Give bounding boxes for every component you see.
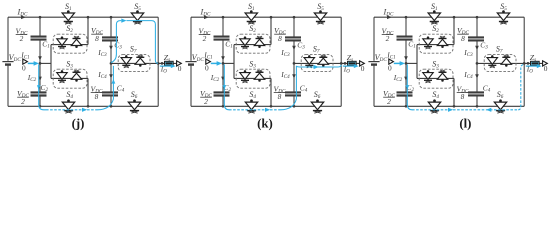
svg-text:8: 8 xyxy=(461,34,465,43)
switch S6 gate marks xyxy=(314,111,320,113)
wire left rail upper xyxy=(373,17,375,61)
switch S4 gate marks xyxy=(248,111,254,113)
svg-text:2: 2 xyxy=(203,34,207,43)
switch S4 diode triangle xyxy=(62,102,74,110)
wire S7 branch xyxy=(294,62,341,64)
switch S3 right device dot xyxy=(258,79,261,82)
switch S7 left device gate marks xyxy=(124,66,129,68)
junction S3 bottom xyxy=(270,105,273,108)
switch S4 body dot xyxy=(250,99,253,102)
switch S6 body dot xyxy=(499,99,502,102)
wire C4 rail bottom segment xyxy=(110,95,112,106)
capacitor C4 xyxy=(285,92,301,95)
cyan dashed path along bottom to right corner xyxy=(412,109,518,111)
switch S7 right device triangle xyxy=(135,58,145,64)
wire S2 branch xyxy=(51,44,88,46)
circuit (j) xyxy=(2,2,181,113)
svg-text:2: 2 xyxy=(20,34,24,43)
battery VDC negative plate xyxy=(188,63,194,65)
current arrow IC4 xyxy=(109,74,113,79)
wire rail A top segment xyxy=(222,17,224,36)
load Zs box xyxy=(348,61,357,65)
junction rail A top xyxy=(222,16,225,19)
switch S5 cathode bar xyxy=(133,21,142,23)
wire bottom rail xyxy=(8,105,158,107)
switch S5 gate marks xyxy=(500,22,506,24)
switch S7 left device triangle xyxy=(121,58,131,65)
switch S3 left device triangle xyxy=(57,73,67,80)
switch S5 diode triangle xyxy=(497,13,509,21)
wire right rail xyxy=(340,17,342,106)
switch S6 cathode bar xyxy=(496,110,505,112)
current arrow IDC xyxy=(387,15,392,19)
wire top rail xyxy=(374,16,524,18)
switch S3 left device dot xyxy=(244,70,247,73)
node 0 stub wire xyxy=(406,62,417,64)
junction output xyxy=(157,62,160,65)
wire left rail lower xyxy=(373,66,375,107)
switch S2 left device triangle xyxy=(240,39,250,46)
svg-text:8: 8 xyxy=(461,92,465,101)
node 0 terminal triangle xyxy=(389,59,394,64)
switch S2 left device bar xyxy=(241,46,249,48)
junction S7 left xyxy=(110,62,113,65)
cyan path through C2 xyxy=(39,64,46,109)
switch S1 gate marks xyxy=(65,22,71,24)
switch S5 cathode bar xyxy=(316,21,325,23)
switch cell S7 dashed box xyxy=(484,55,516,72)
switch S2 left device bar xyxy=(58,46,66,48)
wire C3 rail middle segment xyxy=(293,40,295,92)
wire left rail upper xyxy=(7,17,9,61)
switch S3 left device dot xyxy=(61,70,64,73)
switch S3 left device triangle xyxy=(240,73,250,80)
switch S7 right device dot xyxy=(322,64,325,67)
switch S3 left device gate marks xyxy=(59,81,64,83)
switch cell S7 dashed box xyxy=(301,55,333,72)
switch S6 gate marks xyxy=(131,111,137,113)
switch S3 right device bar xyxy=(256,71,264,73)
switch cell S2 dashed box xyxy=(53,34,87,53)
switch S2 left device dot xyxy=(244,36,247,39)
current arrow IC2 xyxy=(404,77,408,82)
wire rail A middle segment xyxy=(222,40,224,93)
cyan path through S7 to output xyxy=(296,65,341,67)
current arrow IC1 xyxy=(221,56,225,61)
switch S4 cathode bar xyxy=(430,110,439,112)
switch S3 right device dot xyxy=(75,79,78,82)
wire top rail xyxy=(8,16,158,18)
node 0 stub wire xyxy=(40,62,51,64)
wire output to Zs xyxy=(341,62,360,64)
cyan path up through C4 xyxy=(281,66,297,110)
cyan output current IO arrow xyxy=(343,65,354,67)
junction rail A bottom xyxy=(405,105,408,108)
switch cell S3 dashed box xyxy=(236,69,270,88)
switch S7 left device bar xyxy=(122,64,130,66)
switch S2 right device bar xyxy=(73,38,81,40)
junction S2 top xyxy=(87,16,90,19)
battery VDC positive plate xyxy=(368,61,379,63)
svg-text:0: 0 xyxy=(388,63,392,72)
switch S7 left device bar xyxy=(488,64,496,66)
wire right rail xyxy=(523,17,525,106)
switch S1 diode triangle xyxy=(62,13,74,21)
switch S7 left device triangle xyxy=(487,58,497,65)
junction Zs node xyxy=(527,62,530,65)
switch S3 right device triangle xyxy=(71,73,81,79)
switch S6 body dot xyxy=(133,99,136,102)
capacitor C1 xyxy=(397,37,413,40)
switch S3 right device gate marks xyxy=(74,70,79,72)
battery VDC negative plate xyxy=(371,63,377,65)
switch S3 right device gate marks xyxy=(257,70,262,72)
capacitor C2 xyxy=(397,92,413,95)
cyan path through C2 xyxy=(224,64,229,109)
wire C3 rail top segment xyxy=(110,17,112,37)
svg-text:(l): (l) xyxy=(459,116,471,130)
junction S2 top xyxy=(270,16,273,19)
switch cell S7 dashed box xyxy=(118,55,150,72)
switch S5 gate marks xyxy=(134,22,140,24)
current arrow IC3 xyxy=(475,46,479,51)
wire C4 rail bottom segment xyxy=(476,95,478,106)
junction rail A bottom xyxy=(222,105,225,108)
load Zs box xyxy=(531,61,540,65)
switch S2 left device triangle xyxy=(423,39,433,46)
switch S3 left device bar xyxy=(424,79,432,81)
svg-text:8: 8 xyxy=(278,92,282,101)
cyan path under S5 to output xyxy=(127,21,159,64)
capacitor C3 xyxy=(468,37,484,40)
svg-text:0: 0 xyxy=(22,63,26,72)
wire C4 rail bottom segment xyxy=(293,95,295,106)
junction S7 left xyxy=(476,62,479,65)
junction output xyxy=(523,62,526,65)
capacitor C1 xyxy=(31,37,47,40)
switch S6 cathode bar xyxy=(130,110,139,112)
current arrow IDC xyxy=(21,15,26,19)
switch S1 gate marks xyxy=(431,22,437,24)
wire rail A bottom segment xyxy=(39,96,41,107)
switch S3 right device bar xyxy=(439,71,447,73)
cyan path up to S5 and down right rail xyxy=(111,21,121,63)
switch S1 cathode bar xyxy=(430,21,439,23)
switch S2 right device gate marks xyxy=(257,36,262,38)
cyan dashed path along bottom xyxy=(46,109,98,111)
switch S3 left device bar xyxy=(58,79,66,81)
switch S4 cathode bar xyxy=(247,110,256,112)
switch S4 gate marks xyxy=(431,111,437,113)
switch S4 diode triangle xyxy=(245,102,257,110)
wire right rail xyxy=(157,17,159,106)
switch S2 right device bar xyxy=(439,38,447,40)
switch S2 right device triangle xyxy=(437,39,447,45)
switch S5 body dot xyxy=(502,10,505,13)
cyan arrow bottom path xyxy=(82,108,87,112)
circuit (k) xyxy=(185,2,364,113)
switch S7 left device dot xyxy=(125,55,128,58)
wire S2 vertical to top xyxy=(270,17,272,44)
capacitor C4 xyxy=(102,92,118,95)
node 0 stub wire xyxy=(223,62,234,64)
node 0 terminal triangle xyxy=(23,59,28,64)
wire rail A bottom segment xyxy=(405,96,407,107)
switch S7 right device dot xyxy=(505,64,508,67)
switch S7 right device bar xyxy=(319,56,327,58)
switch S5 diode triangle xyxy=(131,13,143,21)
switch S7 left device dot xyxy=(491,55,494,58)
current arrow IC2 xyxy=(221,77,225,82)
current arrow at node 0 (cyan) xyxy=(28,62,34,64)
cyan path through C2 xyxy=(407,64,412,109)
junction node 0 xyxy=(222,62,225,65)
switch S4 gate marks xyxy=(65,111,71,113)
switch S2 right device dot xyxy=(258,45,261,48)
cyan arrow bottom path left xyxy=(486,108,491,112)
junction S3 bottom xyxy=(453,105,456,108)
switch S1 cathode bar xyxy=(64,21,73,23)
switch S7 right device dot xyxy=(139,64,142,67)
switch cell S3 dashed box xyxy=(419,69,453,88)
switch S5 gate marks xyxy=(317,22,323,24)
svg-text:2: 2 xyxy=(387,97,391,106)
cyan arrow down above C2 xyxy=(406,85,410,89)
switch cell S2 dashed box xyxy=(236,34,270,53)
switch S7 right device gate marks xyxy=(138,55,143,57)
cyan dashed path up right rail xyxy=(518,64,523,109)
svg-text:(j): (j) xyxy=(72,116,85,130)
wire S3 branch xyxy=(417,77,454,79)
current arrow IC3 xyxy=(292,46,296,51)
wire bottom rail xyxy=(191,105,341,107)
capacitor C3 xyxy=(102,37,118,40)
wire S2S3 left vertical xyxy=(416,45,418,79)
wire left rail lower xyxy=(7,66,9,107)
cyan arrow up on C4 rail xyxy=(112,79,116,84)
switch S5 cathode bar xyxy=(499,21,508,23)
junction node 0 xyxy=(39,62,42,65)
svg-text:0: 0 xyxy=(361,64,365,73)
switch S2 left device bar xyxy=(424,46,432,48)
switch S3 left device bar xyxy=(241,79,249,81)
current arrow IC2 xyxy=(38,77,42,82)
junction S2 top xyxy=(453,16,456,19)
switch S3 right device dot xyxy=(441,79,444,82)
switch S2 right device bar xyxy=(256,38,264,40)
wire C3 rail middle segment xyxy=(476,40,478,92)
svg-text:0: 0 xyxy=(178,64,182,73)
switch S1 gate marks xyxy=(248,22,254,24)
switch S2 right device gate marks xyxy=(74,36,79,38)
wire rail A middle segment xyxy=(39,40,41,93)
wire output to Zs xyxy=(524,62,543,64)
switch S3 right device triangle xyxy=(254,73,264,79)
svg-text:2: 2 xyxy=(21,97,25,106)
node 0 terminal right xyxy=(360,61,365,66)
switch S7 left device triangle xyxy=(304,58,314,65)
switch S4 body dot xyxy=(433,99,436,102)
current arrow IC4 xyxy=(292,74,296,79)
wire rail A top segment xyxy=(39,17,41,36)
switch S1 cathode bar xyxy=(247,21,256,23)
cyan arrow bottom path right xyxy=(448,108,453,112)
current arrow at node 0 (cyan) xyxy=(211,62,217,64)
switch S4 body dot xyxy=(67,99,70,102)
switch S2 left device triangle xyxy=(57,39,67,46)
switch S3 left device gate marks xyxy=(425,81,430,83)
switch cell S2 dashed box xyxy=(419,34,453,53)
cyan arrow bottom path xyxy=(265,108,270,112)
wire S3 branch xyxy=(234,77,271,79)
capacitor C2 xyxy=(214,92,230,95)
capacitor C3 xyxy=(285,37,301,40)
switch S4 diode triangle xyxy=(428,102,440,110)
wire rail A bottom segment xyxy=(222,96,224,107)
svg-text:(k): (k) xyxy=(257,116,273,130)
junction S7 left xyxy=(293,62,296,65)
switch S7 right device gate marks xyxy=(321,55,326,57)
wire C3 rail top segment xyxy=(476,17,478,37)
switch S3 right device bar xyxy=(73,71,81,73)
switch S1 body dot xyxy=(250,10,253,13)
current arrow IC1 xyxy=(404,56,408,61)
switch S7 right device bar xyxy=(136,56,144,58)
switch S5 diode triangle xyxy=(314,13,326,21)
cyan arrow toward S5 xyxy=(121,19,126,23)
switch S1 body dot xyxy=(67,10,70,13)
switch S2 left device gate marks xyxy=(425,47,430,49)
junction Zs node xyxy=(161,62,164,65)
current arrow IDC xyxy=(204,15,209,19)
wire left rail upper xyxy=(190,17,192,61)
switch S2 right device triangle xyxy=(71,39,81,45)
switch S6 diode triangle xyxy=(494,102,506,110)
junction C4 bottom xyxy=(476,105,479,108)
battery VDC positive plate xyxy=(2,61,13,63)
junction node 0 xyxy=(405,62,408,65)
switch S1 body dot xyxy=(433,10,436,13)
junction C3 top xyxy=(476,16,479,19)
wire S7 branch xyxy=(111,62,158,64)
circuit (l) xyxy=(368,2,547,113)
switch S4 cathode bar xyxy=(64,110,73,112)
current arrow IC3 xyxy=(109,46,113,51)
switch S7 left device bar xyxy=(305,64,313,66)
svg-text:2: 2 xyxy=(204,97,208,106)
junction rail A top xyxy=(405,16,408,19)
switch S2 right device dot xyxy=(441,45,444,48)
battery VDC negative plate xyxy=(5,63,11,65)
switch S6 gate marks xyxy=(497,111,503,113)
switch cell S3 dashed box xyxy=(53,69,87,88)
switch S6 diode triangle xyxy=(128,102,140,110)
wire S3 vertical to bottom xyxy=(87,78,89,106)
cyan arrow down above C2 xyxy=(223,85,227,89)
cyan arrow down above C2 xyxy=(37,85,41,89)
wire bottom rail xyxy=(374,105,524,107)
switch S2 left device dot xyxy=(427,36,430,39)
switch S3 right device triangle xyxy=(437,73,447,79)
node 0 terminal right xyxy=(543,61,548,66)
wire S2S3 left vertical xyxy=(50,45,52,79)
wire S2 vertical to top xyxy=(87,17,89,44)
junction C4 bottom xyxy=(293,105,296,108)
cyan output current IO arrow xyxy=(526,65,537,67)
switch S5 body dot xyxy=(319,10,322,13)
switch S6 body dot xyxy=(316,99,319,102)
switch S2 right device dot xyxy=(75,45,78,48)
switch S2 right device triangle xyxy=(254,39,264,45)
current arrow IC4 xyxy=(475,74,479,79)
junction C3 top xyxy=(110,16,113,19)
capacitor C1 xyxy=(214,37,230,40)
junction output xyxy=(340,62,343,65)
wire S3 vertical to bottom xyxy=(270,78,272,106)
load Zs box xyxy=(165,61,174,65)
wire S2 branch xyxy=(234,44,271,46)
cyan path up through C4 xyxy=(98,66,114,110)
switch S7 left device gate marks xyxy=(307,66,312,68)
svg-text:8: 8 xyxy=(95,34,99,43)
switch S6 diode triangle xyxy=(311,102,323,110)
battery VDC positive plate xyxy=(185,61,196,63)
current arrow at node 0 (cyan) xyxy=(394,62,400,64)
wire S3 vertical to bottom xyxy=(453,78,455,106)
switch S1 diode triangle xyxy=(245,13,257,21)
current arrow IC1 xyxy=(38,56,42,61)
switch S2 left device gate marks xyxy=(242,47,247,49)
switch S6 cathode bar xyxy=(313,110,322,112)
switch S7 left device dot xyxy=(308,55,311,58)
cyan arrow through S7 xyxy=(314,65,319,69)
switch S7 right device triangle xyxy=(318,58,328,64)
switch S3 right device gate marks xyxy=(440,70,445,72)
svg-text:8: 8 xyxy=(95,92,99,101)
svg-text:0: 0 xyxy=(544,64,548,73)
wire S2 branch xyxy=(417,44,454,46)
node 0 terminal right xyxy=(177,61,182,66)
junction rail A bottom xyxy=(39,105,42,108)
switch S7 left device gate marks xyxy=(490,66,495,68)
junction rail A top xyxy=(39,16,42,19)
switch S5 body dot xyxy=(136,10,139,13)
wire S2S3 left vertical xyxy=(233,45,235,79)
wire rail A top segment xyxy=(405,17,407,36)
node 0 terminal triangle xyxy=(206,59,211,64)
wire S3 branch xyxy=(51,77,88,79)
wire left rail lower xyxy=(190,66,192,107)
switch S3 left device triangle xyxy=(423,73,433,80)
switch S7 right device triangle xyxy=(501,58,511,64)
wire S2 vertical to top xyxy=(453,17,455,44)
capacitor C2 xyxy=(31,92,47,95)
wire output to Zs xyxy=(158,62,177,64)
junction Zs node xyxy=(344,62,347,65)
switch S7 right device gate marks xyxy=(504,55,509,57)
wire C3 rail top segment xyxy=(293,17,295,37)
cyan dashed path along bottom xyxy=(229,109,281,111)
cyan output current IO arrow xyxy=(160,65,171,67)
svg-text:0: 0 xyxy=(205,63,209,72)
junction C3 top xyxy=(293,16,296,19)
switch S7 right device bar xyxy=(502,56,510,58)
switch S2 left device dot xyxy=(61,36,64,39)
svg-text:2: 2 xyxy=(386,34,390,43)
wire C3 rail middle segment xyxy=(110,40,112,92)
svg-text:8: 8 xyxy=(278,34,282,43)
switch S3 left device gate marks xyxy=(242,81,247,83)
